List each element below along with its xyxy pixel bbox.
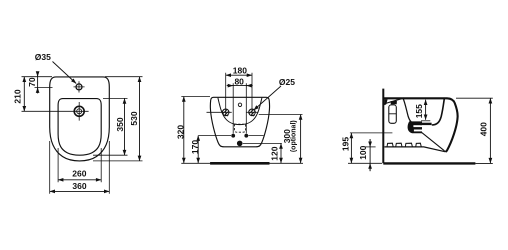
floor thick [383, 162, 475, 164]
svg-text:400: 400 [478, 122, 488, 136]
floor thick bar [210, 162, 269, 165]
svg-text:260: 260 [72, 169, 86, 179]
floor reference line [181, 162, 303, 164]
extension line trap bottom (195) [350, 132, 393, 134]
bowl opening arc [218, 98, 262, 125]
dark wedge near wall [384, 99, 387, 105]
svg-text:80: 80 [234, 76, 244, 86]
extension verticals supply holes [233, 83, 246, 133]
fixing hole left [222, 109, 229, 116]
svg-text:350: 350 [115, 117, 125, 131]
svg-text:530: 530 [129, 111, 139, 125]
extension line rim level (400) [456, 97, 493, 99]
tooth 3 [405, 143, 412, 147]
extension lines outer sides down [50, 141, 110, 194]
bidet outer rim outline [50, 77, 110, 161]
trap water slot 2 [414, 130, 422, 132]
drain crosshair [70, 102, 89, 121]
svg-text:195: 195 [341, 137, 351, 151]
extension line tap center [35, 87, 53, 89]
extension verticals fixing holes [226, 73, 252, 117]
extension line supply dots level [198, 135, 263, 137]
wall line [382, 89, 384, 164]
tap hole circle [76, 84, 82, 90]
overflow circle [238, 103, 241, 106]
leader arrow Ø25 [254, 86, 281, 110]
supply dot right [244, 134, 248, 138]
extension line bowl bottom [93, 154, 128, 156]
drain circle inner [77, 109, 82, 114]
extension line outer bottom [93, 160, 143, 162]
bowl interior left wall [403, 98, 413, 123]
dimension 360 [50, 190, 110, 192]
tooth 4 [416, 143, 422, 147]
extension line holes level (300) [259, 114, 303, 116]
extension line drain dot level [243, 142, 282, 144]
tap hole crosshair [74, 81, 85, 92]
dimension 400 [489, 98, 491, 163]
extension line top edge right [105, 76, 143, 78]
dimension 195 [350, 133, 352, 163]
extension tick teeth level (100) [364, 146, 375, 148]
underside diagonal inner [422, 133, 445, 151]
extension tick 155 bottom [421, 120, 430, 122]
svg-text:210: 210 [12, 89, 22, 103]
dimension 170 [197, 136, 199, 164]
svg-text:360: 360 [72, 181, 86, 191]
trap water slot 1 [413, 125, 422, 127]
svg-text:180: 180 [233, 65, 247, 75]
dimension 350 [124, 98, 126, 155]
bowl bottom thick [420, 123, 432, 125]
extension line bowl top right [103, 97, 128, 99]
bracket mark above buttonhole [391, 101, 397, 105]
extension line floor left [348, 162, 382, 164]
dimension 70 [37, 72, 39, 94]
buttonhole mid line [389, 113, 397, 115]
dimension 155 [425, 100, 427, 120]
tooth 2 [396, 143, 402, 147]
svg-text:100: 100 [358, 145, 368, 159]
dimension 180 [226, 74, 252, 76]
extension line top edge left [22, 76, 53, 78]
svg-text:Ø35: Ø35 [35, 52, 51, 62]
tooth 1 [387, 143, 393, 147]
svg-text:120: 120 [269, 146, 279, 160]
dimension 530 [139, 77, 141, 161]
trap block [408, 121, 422, 133]
svg-text:70: 70 [27, 77, 37, 87]
svg-text:155: 155 [414, 104, 424, 118]
buttonhole slot [389, 105, 397, 123]
extension line drain center [22, 110, 71, 112]
extension line top edge (320) [181, 96, 210, 98]
drain circle outer [74, 106, 84, 116]
bowl interior right wall [432, 99, 445, 125]
bidet inner bowl outline [58, 99, 101, 156]
supply dot left [231, 134, 235, 138]
dimension 100 [369, 139, 371, 171]
dimension 80 [227, 85, 253, 87]
extension lines bowl sides down [58, 148, 101, 182]
leader arrow for Ø35 [53, 62, 77, 84]
dimension 210 [23, 77, 25, 112]
bidet front outline [210, 97, 269, 147]
floor thin extension [475, 162, 492, 164]
dimension 120 [280, 143, 282, 163]
drain dot [237, 141, 243, 147]
svg-text:320: 320 [175, 125, 185, 139]
underside teeth baseline [384, 147, 445, 152]
svg-text:170: 170 [190, 140, 200, 154]
wedge line below rim [384, 99, 401, 104]
fixing hole right [249, 109, 256, 116]
dimension 260 [58, 179, 101, 181]
svg-text:(optional): (optional) [291, 120, 298, 152]
rim and front face outline [384, 98, 458, 152]
svg-text:Ø25: Ø25 [279, 77, 295, 87]
dashed trap [234, 124, 245, 132]
dimension 300 optional [300, 115, 302, 164]
dimension 320 [183, 97, 185, 164]
